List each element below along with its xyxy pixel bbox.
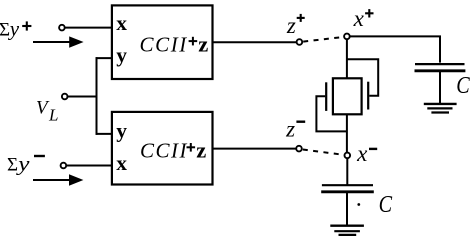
wire Sigma-y-minus to x pin of CCII 2 [66,165,112,167]
CCII+ block 1 (top) [112,5,213,79]
MOS right gate bar [367,82,369,110]
ground (right) [424,104,457,113]
svg-text:CCII: CCII [140,32,188,56]
wire x+ to right capacitor [350,36,440,62]
wire left gate to source (bottom) [316,96,347,131]
svg-text:y: y [116,119,127,143]
switch dashed z- to x- [303,150,344,155]
svg-text:z: z [286,13,296,38]
svg-text:C: C [379,190,393,217]
wire Sigma-y-plus to x pin of CCII 1 [65,27,112,29]
wire x- down to bottom capacitor [346,158,348,185]
svg-text:x: x [353,6,365,31]
svg-text:Σ: Σ [0,20,10,41]
svg-text:x: x [116,151,127,175]
input label VL [36,97,58,124]
wire capacitor C1 to ground [439,72,441,104]
svg-text:y: y [116,43,127,67]
label x- [356,141,377,166]
wire y pin CCII 1 [96,57,112,59]
terminal Sigma-y-minus [61,163,67,169]
label z+ [286,13,305,38]
ground (bottom) [330,226,364,235]
current arrow into Sigma-y-plus [33,36,84,47]
wire z output CCII 1 [213,41,296,43]
current arrow into Sigma-y-minus [33,174,83,186]
node x- [345,153,351,159]
input label Sigma-y-minus [7,152,45,176]
terminal Sigma-y-plus [59,25,65,31]
svg-text:y: y [8,17,20,41]
capacitor C2 (bottom) [321,185,374,192]
label z- [285,117,305,142]
svg-text:C: C [456,71,470,98]
node x+ [344,34,350,40]
MOS resistor body (channel box) [333,78,362,114]
node z+ [297,39,303,45]
wire right gate to drain (top) [347,59,378,95]
svg-text:x: x [356,141,368,166]
svg-text:y: y [16,152,30,176]
svg-text:z: z [198,32,208,57]
label x+ [353,6,374,31]
wire z output CCII 2 [213,148,296,150]
wire VL to y bus [68,96,97,98]
node z- [296,146,302,152]
svg-text:z: z [285,117,295,142]
capacitor C1 (right) [415,64,466,71]
wire capacitor C2 to ground [346,193,348,226]
switch dashed z+ to x+ [303,37,343,42]
svg-text:L: L [48,105,58,124]
wire y bus vertical [96,57,98,135]
MOS left gate bar [325,82,327,111]
svg-text:z: z [196,138,206,163]
stray dot mark [357,203,360,206]
svg-text:CCII: CCII [140,139,188,163]
svg-text:x: x [116,11,127,35]
wire x+ down to MOS resistor [346,39,348,78]
input label Sigma-y-plus [0,17,31,41]
wire MOS resistor down to x- [346,114,348,152]
svg-text:Σ: Σ [7,155,18,176]
CCII+ block 2 (bottom) [112,112,213,185]
terminal VL [62,94,68,100]
wire y pin CCII 2 [96,133,112,135]
